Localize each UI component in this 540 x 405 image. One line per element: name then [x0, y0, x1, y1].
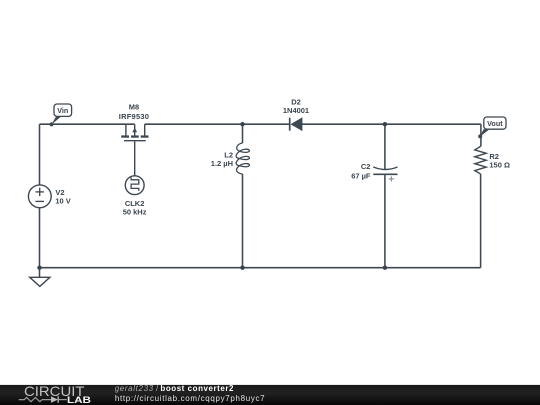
node: junction dot ground — [37, 266, 41, 270]
M8 body stub — [134, 124, 136, 135]
wire C2 top stub — [384, 124, 386, 169]
wire ground stub — [39, 268, 41, 278]
M8 source stub — [125, 124, 127, 135]
CLK2 circle body — [125, 176, 144, 195]
V2 plus sign vertical — [39, 188, 41, 196]
V2 plus sign horizontal — [36, 191, 44, 193]
Vin anchor dot — [50, 122, 54, 126]
footer logo squiggle wire — [19, 398, 51, 402]
svg-text:C2: C2 — [361, 162, 371, 171]
svg-text:M8: M8 — [129, 103, 139, 112]
V2 circle body — [28, 185, 51, 208]
capacitor C2 (polarized) — [373, 167, 397, 182]
wire L2 bottom stub — [242, 174, 244, 268]
wire top rail left (Vin to MOSFET body) — [40, 123, 135, 125]
M8 gate wire to CLK2 — [134, 141, 136, 175]
node: junction dot L2 top — [240, 122, 244, 126]
C2 plus polarity mark — [389, 176, 394, 181]
svg-text:Vin: Vin — [57, 106, 68, 115]
wire left rail lower (V2 bottom to ground rail) — [39, 208, 41, 268]
wire C2 bottom stub — [384, 174, 386, 267]
svg-text:50 kHz: 50 kHz — [123, 208, 147, 217]
M8 drain contact bar — [141, 135, 149, 137]
M8 gate plate — [124, 140, 146, 142]
wire top rail right of diode (D2 anode to Vout corner) — [302, 123, 481, 125]
svg-text:IRF9530: IRF9530 — [119, 112, 149, 121]
svg-text:Vout: Vout — [487, 119, 503, 128]
diode D2 — [290, 117, 303, 131]
Vout flag pointer — [480, 129, 490, 137]
ground — [30, 277, 50, 286]
wire left rail upper (Vin corner down to V2 top) — [39, 124, 41, 185]
wire bottom rail — [40, 267, 481, 269]
Vout flag box — [484, 117, 506, 129]
node Vout flag — [478, 117, 506, 138]
V2 minus sign — [35, 200, 44, 202]
M8 body arrow — [132, 128, 137, 133]
inductor L2 coil — [236, 143, 249, 174]
C2 straight plate — [373, 173, 397, 175]
voltage source V2 — [28, 185, 51, 208]
svg-text:geralt233 / boost converter2: geralt233 / boost converter2 — [115, 384, 234, 393]
wire L2 top stub — [242, 124, 244, 143]
CLK2 square-wave glyph — [131, 177, 139, 191]
M8 body contact bar — [131, 135, 139, 137]
M8 source contact bar — [121, 135, 129, 137]
transistor M8 (IRF9530 P-MOSFET) — [121, 124, 148, 176]
node: junction dot L2 bottom — [240, 266, 244, 270]
svg-text:150 Ω: 150 Ω — [489, 160, 510, 169]
svg-text:http://circuitlab.com/cqqpy7ph: http://circuitlab.com/cqqpy7ph8uyc7 — [115, 394, 265, 403]
svg-text:67 µF: 67 µF — [351, 171, 371, 180]
node: junction dot C2 top — [383, 122, 387, 126]
wire R2 top stub — [480, 124, 482, 146]
svg-text:1N4001: 1N4001 — [283, 106, 309, 115]
svg-text:10 V: 10 V — [55, 196, 70, 205]
clock source CLK2 — [125, 176, 144, 195]
resistor R2 zigzag — [475, 146, 486, 174]
svg-text:1.2 µH: 1.2 µH — [211, 159, 233, 168]
M8 drain stub — [144, 124, 146, 135]
Vout anchor dot — [478, 134, 482, 138]
wire top rail right (MOSFET drain to D2 cathode) — [145, 123, 290, 125]
footer logo diode — [51, 396, 58, 402]
footer bar — [0, 385, 540, 405]
labels — [55, 97, 510, 216]
node: junction dot C2 bottom — [383, 266, 387, 270]
D2 triangle — [291, 117, 303, 131]
C2 curved plate — [373, 167, 397, 170]
svg-text:LAB: LAB — [67, 395, 91, 405]
node Vin flag — [50, 104, 72, 126]
wire R2 bottom stub — [480, 174, 482, 268]
Vin flag pointer — [51, 117, 61, 125]
D2 cathode bar — [289, 118, 291, 131]
Vin flag box — [54, 104, 72, 116]
svg-text:CLK2: CLK2 — [125, 199, 145, 208]
